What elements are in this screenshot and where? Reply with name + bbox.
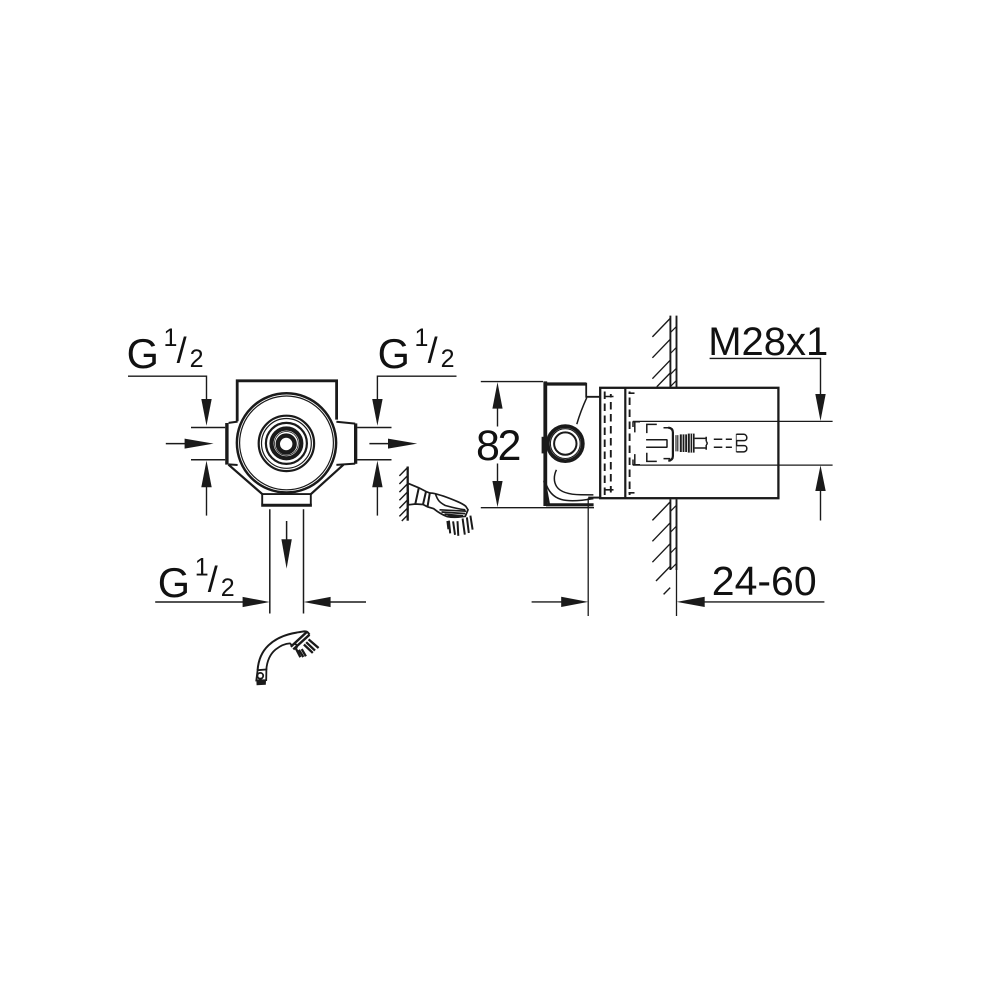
wall: lower ladder ticks [670, 505, 676, 569]
icon: wall-mounted hand shower right of front view [399, 467, 472, 536]
svg-text:82: 82 [476, 422, 520, 470]
dimension 24-60: right arrow [677, 597, 825, 607]
side view: side port ring [550, 429, 580, 459]
front view: cartridge ring r20.5 [266, 423, 307, 464]
side view: body left edge [543, 381, 547, 506]
dimension line bottom G1/2 left part with arrow [155, 597, 270, 607]
dimension 24-60: left arrow [532, 597, 589, 607]
dimension 24-60: flange lip line [588, 497, 600, 499]
dimension 24-60: wall extension line [676, 570, 678, 616]
cartridge: center dashes [714, 439, 732, 447]
dimension 82: top extension line [481, 381, 543, 383]
dimension 24-60: left extension line [587, 498, 589, 616]
front view: cartridge thick ring [272, 429, 302, 459]
dimension 82: upper arrow [492, 382, 502, 426]
dimension M28x1: underline and leader [710, 358, 821, 395]
icon: hand shower below front view [256, 631, 318, 685]
svg-text:2: 2 [190, 345, 204, 373]
dimension line top-left G1/2 [128, 376, 207, 400]
icon handle inner curve [266, 643, 297, 670]
side view: sleeve solid right edge [624, 389, 626, 498]
svg-text:/: / [428, 330, 438, 371]
cartridge: spline block 1 [680, 434, 687, 452]
front view: flange outer circle [237, 393, 336, 492]
wire: bore line upper [633, 420, 833, 422]
side view: side port outer ring [548, 426, 583, 461]
side view: casting curve lower A [554, 470, 593, 495]
side view: body block fill [544, 383, 600, 507]
wire: bottom outlet pipe lines [270, 509, 304, 613]
arrow up to left port bottom [201, 461, 211, 488]
label G1/2 top-right [378, 324, 455, 377]
label G1/2 bottom [158, 554, 235, 606]
cartridge: ridge lines [676, 435, 678, 451]
cartridge: spline block 2 [688, 434, 695, 453]
svg-text:G: G [127, 330, 159, 377]
wire: bore line lower [633, 464, 833, 466]
wall: upper hatch strokes [652, 318, 670, 386]
icon spray lines upper [304, 639, 319, 653]
svg-text:G: G [158, 559, 190, 606]
icon shower holder body [408, 483, 468, 517]
cartridge: clevis [695, 437, 708, 450]
front view: back square body [237, 381, 336, 469]
front view: center black donut [278, 436, 295, 453]
svg-text:1: 1 [164, 324, 178, 352]
flow arrow out of right port [369, 439, 417, 449]
label G1/2 top-left [127, 324, 204, 377]
icon head face band [291, 632, 307, 647]
front view: lower body chamfer left [228, 465, 262, 495]
dimension line bottom G1/2 right part with arrow [304, 597, 366, 607]
side view: sleeve dashed line 2 [610, 394, 612, 493]
cartridge: dashes [664, 428, 671, 459]
side view: body bottom left chamfer [544, 481, 548, 505]
side view: side port inner ring [554, 432, 576, 454]
front view: left inlet port [225, 421, 241, 465]
dimension M28x1: down arrow [815, 394, 825, 421]
side view: body left port bump [542, 437, 544, 454]
cartridge: end piece [737, 434, 747, 452]
cartridge: inner flange [646, 424, 667, 462]
front view: cartridge ring r25 [262, 419, 312, 469]
svg-text:1: 1 [415, 324, 429, 352]
svg-text:G: G [378, 330, 410, 377]
front view: bottom outlet block [261, 494, 312, 505]
icon spray lines lower [296, 649, 306, 657]
arrow up to right port bottom [372, 461, 382, 488]
svg-text:2: 2 [441, 345, 455, 373]
svg-text:1: 1 [195, 554, 209, 582]
wall: lower section lines [670, 499, 676, 570]
icon wall hatches [399, 467, 407, 521]
wire: right lower arrow shaft [376, 487, 378, 516]
side view: casting curve upper [577, 398, 587, 425]
wire: right outlet pipe lines [357, 428, 391, 460]
side view: protruding tube [600, 388, 778, 498]
side view: body bottom edge [546, 503, 594, 506]
arrow down to right port top [372, 399, 382, 426]
dimension 82: bottom extension line [481, 507, 594, 509]
wire: left lower arrow shaft [206, 487, 208, 516]
side view: sleeve dash connectors [606, 393, 635, 493]
icon handle outer curve [258, 631, 310, 670]
svg-text:/: / [177, 330, 187, 371]
front view: right outlet port [333, 421, 357, 465]
wire: left supply pipe lines [191, 428, 225, 460]
icon connector [256, 670, 266, 681]
front view: lower body chamfer right [311, 465, 344, 495]
icon wall line [407, 467, 409, 521]
svg-text:24-60: 24-60 [712, 558, 817, 604]
flow arrow into left port [166, 439, 214, 449]
side view: body top right step [586, 383, 600, 397]
dimension line top-right G1/2 [377, 376, 456, 400]
dimension M28x1: up arrow [815, 465, 825, 520]
front view: cartridge spline arcs [275, 432, 299, 456]
svg-text:/: / [208, 559, 218, 600]
arrow down to left port top [201, 399, 211, 426]
icon holder joint lines [415, 488, 430, 507]
cartridge: bore entry steps [633, 421, 640, 465]
svg-text:M28x1: M28x1 [708, 320, 828, 364]
cartridge: body right edge [668, 428, 673, 461]
flow arrow down bottom pipe [281, 521, 291, 569]
svg-text:2: 2 [221, 574, 235, 602]
icon spray lines [447, 516, 472, 536]
side view: casting curve lower B [545, 482, 593, 501]
side view: sleeve dashed line 1 [604, 392, 606, 496]
icon head inner curve [436, 494, 466, 509]
side view: sleeve dashed line 3 [629, 392, 631, 496]
front view: cartridge ring r28 [259, 416, 314, 471]
wall: upper ladder ticks [670, 326, 676, 386]
wall: lower hatch strokes [652, 502, 670, 595]
front view: flange inner circle [240, 396, 334, 490]
wall: upper section lines [670, 316, 676, 387]
side view: body top edge [544, 382, 587, 385]
dimension 82: lower arrow [492, 464, 502, 508]
icon head face stripes [440, 510, 467, 517]
